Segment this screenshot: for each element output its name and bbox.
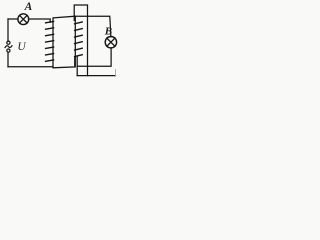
transformer core bbox=[53, 16, 75, 68]
wire left vertical upper bbox=[7, 19, 9, 41]
AC source U terminal top bbox=[7, 41, 10, 44]
AC source U terminal bottom bbox=[7, 49, 10, 52]
wire secondary bottom lead inner bbox=[74, 57, 76, 67]
wire secondary bottom lead bbox=[76, 57, 78, 76]
wire bottom secondary bbox=[77, 75, 115, 77]
wire left vertical lower bbox=[7, 52, 9, 67]
secondary coil S1 bbox=[75, 22, 83, 57]
AC source U tilde bbox=[5, 46, 12, 48]
wire top to lamp B bbox=[75, 16, 111, 37]
svg-text:B: B bbox=[104, 26, 112, 38]
lamp A bbox=[18, 14, 29, 25]
wire left stub to lamp A bbox=[8, 18, 18, 20]
lamp B bbox=[105, 37, 116, 48]
wire bottom right hook bbox=[115, 70, 117, 76]
wire bottom primary bbox=[8, 66, 53, 68]
wire secondary top lead crossover bbox=[74, 5, 87, 76]
svg-text:A: A bbox=[24, 1, 33, 13]
wire lamp A to core bbox=[29, 19, 51, 22]
svg-text:U: U bbox=[17, 41, 26, 53]
primary coil P1 bbox=[46, 21, 54, 61]
wire lamp B bottom bbox=[77, 48, 111, 66]
